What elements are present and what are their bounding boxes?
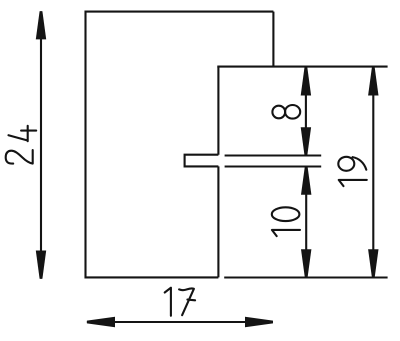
dimension 8: bottom arrowhead [301, 127, 311, 155]
dimension 19: text "9" [338, 157, 366, 171]
dimension 19: bottom arrowhead [368, 249, 378, 277]
dimension 19: text "1" [339, 180, 367, 186]
dimension 24: bottom arrowhead [36, 251, 46, 279]
dimension 10: top arrowhead [301, 167, 311, 195]
dimension 17: text "1" [165, 288, 171, 316]
outline: top edge, left edge, bottom edge of part [86, 12, 274, 278]
dimension 19: shaft [372, 68, 374, 278]
dimension 17: left arrowhead [87, 317, 115, 327]
dimension 17: text "7" [179, 288, 195, 315]
dimension 24: shaft [40, 11, 42, 279]
outline: inner vertical edge upper segment [217, 67, 219, 155]
slot upper edge right / extension line [225, 154, 322, 156]
dimension 17: shaft [87, 321, 273, 323]
dimension 19: top arrowhead [368, 67, 378, 95]
step edge / extension line at y=66.6 [217, 66, 387, 68]
bottom extension line [224, 276, 387, 278]
dimension 24: top arrowhead [36, 11, 46, 39]
dimension 8: shaft [305, 68, 307, 156]
dimension 17: right arrowhead [245, 317, 273, 327]
slot left closed end [185, 155, 219, 167]
dimension 10: bottom arrowhead [301, 249, 311, 277]
dimension 24: text "2" [6, 150, 33, 164]
dimension 8: top arrowhead [301, 67, 311, 95]
dimension 10: text "0" [272, 207, 300, 221]
outline: right edge of upper flange [272, 12, 274, 67]
dimension 10: text "1" [272, 230, 300, 236]
dimension 24: text "4" [9, 126, 37, 141]
slot lower edge right / extension line [225, 165, 322, 167]
dimension 8: text "8" [272, 105, 300, 119]
outline: inner vertical edge lower segment [217, 166, 219, 277]
dimension 10: shaft [305, 167, 307, 277]
